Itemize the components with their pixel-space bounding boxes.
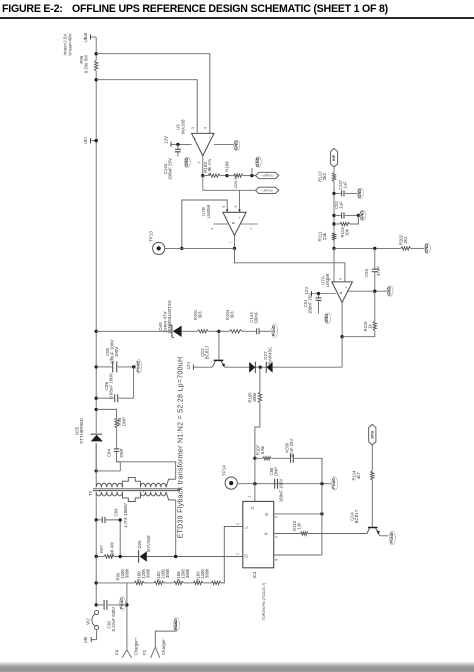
svg-text:+: +: [238, 216, 242, 218]
svg-text:1206 5%: 1206 5%: [234, 174, 238, 189]
svg-text:X: X: [264, 532, 269, 535]
svg-text:10k: 10k: [345, 228, 350, 236]
svg-text:1: 1: [248, 495, 252, 497]
svg-text:3: 3: [191, 127, 195, 129]
svg-text:R106: R106: [225, 161, 230, 172]
svg-text:−: −: [333, 286, 337, 288]
svg-text:BAR43C: BAR43C: [267, 346, 272, 364]
svg-text:390k: 390k: [205, 568, 210, 578]
svg-text:7: 7: [236, 553, 240, 555]
svg-text:100V: 100V: [114, 347, 119, 358]
svg-text:PGND: PGND: [136, 361, 140, 372]
svg-text:PGND: PGND: [272, 325, 276, 336]
svg-text:2: 2: [236, 523, 240, 525]
svg-text:390k: 390k: [165, 568, 170, 578]
svg-text:0.22uF 630V: 0.22uF 630V: [111, 607, 116, 632]
svg-text:T2: T2: [88, 490, 93, 496]
svg-text:4: 4: [204, 127, 208, 129]
svg-text:1uF: 1uF: [339, 201, 344, 209]
svg-text:Charger+: Charger+: [133, 637, 138, 656]
svg-text:R97: R97: [99, 544, 104, 552]
svg-text:C83: C83: [113, 508, 118, 516]
svg-text:6: 6: [222, 205, 226, 207]
svg-text:3k3: 3k3: [198, 311, 203, 319]
svg-text:390k: 390k: [124, 568, 129, 578]
svg-text:C84: C84: [107, 448, 112, 456]
svg-text:8: 8: [210, 227, 214, 229]
svg-text:390k: 390k: [146, 568, 151, 578]
svg-text:47uF 25V: 47uF 25V: [289, 439, 294, 458]
svg-text:GND: GND: [233, 141, 238, 150]
svg-text:GND: GND: [255, 157, 260, 166]
svg-text:Charger-: Charger-: [161, 637, 166, 655]
svg-text:PGND: PGND: [332, 478, 336, 489]
svg-text:7: 7: [229, 241, 233, 243]
svg-text:BYV26E: BYV26E: [146, 535, 151, 552]
svg-text:Uln: Uln: [83, 137, 88, 144]
svg-text:PGND: PGND: [390, 532, 394, 543]
svg-text:BC817: BC817: [204, 345, 209, 359]
svg-text:GND: GND: [359, 211, 364, 220]
svg-text:0.33e 5W: 0.33e 5W: [83, 54, 88, 73]
svg-text:24k: 24k: [322, 232, 327, 240]
svg-text:6.8e: 6.8e: [260, 445, 265, 454]
svg-text:100nF: 100nF: [253, 311, 258, 324]
svg-text:+UBPSU: +UBPSU: [261, 174, 273, 178]
svg-text:2: 2: [328, 278, 332, 280]
svg-text:100nF 25V: 100nF 25V: [307, 293, 312, 314]
svg-text:TP13: TP13: [149, 231, 154, 242]
svg-text:D26: D26: [137, 540, 142, 549]
svg-text:4k7: 4k7: [356, 471, 361, 479]
svg-text:PGND: PGND: [174, 619, 178, 630]
svg-text:BC817: BC817: [354, 509, 359, 523]
svg-text:GND: GND: [357, 189, 362, 198]
svg-text:INP: INP: [332, 154, 336, 161]
svg-text:12V: 12V: [163, 136, 168, 144]
svg-text:TP14: TP14: [222, 465, 227, 476]
svg-text:-UBPSU: -UBPSU: [261, 189, 273, 193]
svg-text:TOP250YN (TO220-7): TOP250YN (TO220-7): [262, 582, 266, 621]
svg-text:Ubt: Ubt: [83, 636, 88, 643]
svg-text:GND: GND: [184, 158, 189, 167]
svg-text:−: −: [207, 136, 212, 139]
svg-text:100nF 25V: 100nF 25V: [167, 158, 172, 180]
svg-text:0.68uF 100V: 0.68uF 100V: [108, 373, 113, 399]
svg-text:1k: 1k: [367, 323, 372, 328]
svg-text:P4: P4: [114, 649, 119, 655]
svg-text:Ubat: Ubat: [83, 32, 88, 42]
svg-text:100e: 100e: [252, 392, 257, 402]
svg-text:2k2: 2k2: [403, 236, 408, 244]
svg-text:1uF: 1uF: [343, 181, 348, 189]
svg-text:1SMB5941BT3G: 1SMB5941BT3G: [167, 299, 172, 334]
svg-text:PGND: PGND: [120, 598, 124, 609]
svg-text:DNP: DNP: [122, 417, 127, 426]
svg-text:−: −: [226, 216, 230, 218]
svg-text:GND: GND: [324, 314, 329, 323]
svg-text:GND: GND: [424, 244, 429, 253]
svg-text:5: 5: [234, 205, 238, 207]
svg-text:1: 1: [197, 161, 201, 163]
svg-text:LM358: LM358: [206, 204, 211, 218]
svg-text:A: A: [339, 291, 343, 294]
svg-text:3: 3: [339, 278, 343, 280]
svg-text:C93: C93: [364, 268, 369, 276]
svg-text:390k: 390k: [185, 568, 190, 578]
svg-text:12V: 12V: [186, 362, 191, 370]
svg-text:IC4: IC4: [252, 571, 257, 579]
svg-text:12k: 12k: [296, 522, 301, 530]
svg-text:GND: GND: [387, 287, 392, 296]
svg-text:C: C: [250, 505, 255, 509]
svg-text:5: 5: [275, 516, 279, 518]
svg-text:Vmax=48V: Vmax=48V: [68, 32, 73, 56]
svg-text:D: D: [244, 554, 249, 558]
svg-text:+: +: [344, 286, 348, 288]
svg-text:S: S: [264, 513, 269, 516]
svg-text:3: 3: [275, 536, 279, 538]
svg-text:100nF 100V: 100nF 100V: [278, 479, 283, 503]
svg-text:L: L: [244, 526, 249, 529]
svg-text:6.8k 1%: 6.8k 1%: [207, 159, 212, 175]
svg-text:2k2: 2k2: [322, 172, 327, 180]
svg-text:4.7nF 1000V: 4.7nF 1000V: [123, 503, 128, 528]
svg-text:EFB: EFB: [370, 431, 374, 439]
svg-text:P2: P2: [142, 649, 147, 655]
svg-text:3k3: 3k3: [230, 311, 235, 319]
svg-text:B: B: [232, 221, 236, 224]
svg-text:47nF: 47nF: [376, 266, 381, 276]
svg-text:4: 4: [275, 559, 279, 561]
svg-text:STTH8R06D: STTH8R06D: [79, 417, 84, 444]
svg-text:ETD39 Flyback transformer N1:N: ETD39 Flyback transformer N1:N2 = 52:28 …: [178, 357, 185, 539]
svg-text:DNP: DNP: [273, 467, 278, 476]
svg-text:4: 4: [249, 227, 253, 229]
svg-text:INA168: INA168: [181, 119, 186, 135]
svg-text:W2: W2: [86, 618, 91, 625]
svg-text:DNP: DNP: [119, 448, 124, 457]
svg-text:6e8 4W: 6e8 4W: [109, 541, 114, 557]
